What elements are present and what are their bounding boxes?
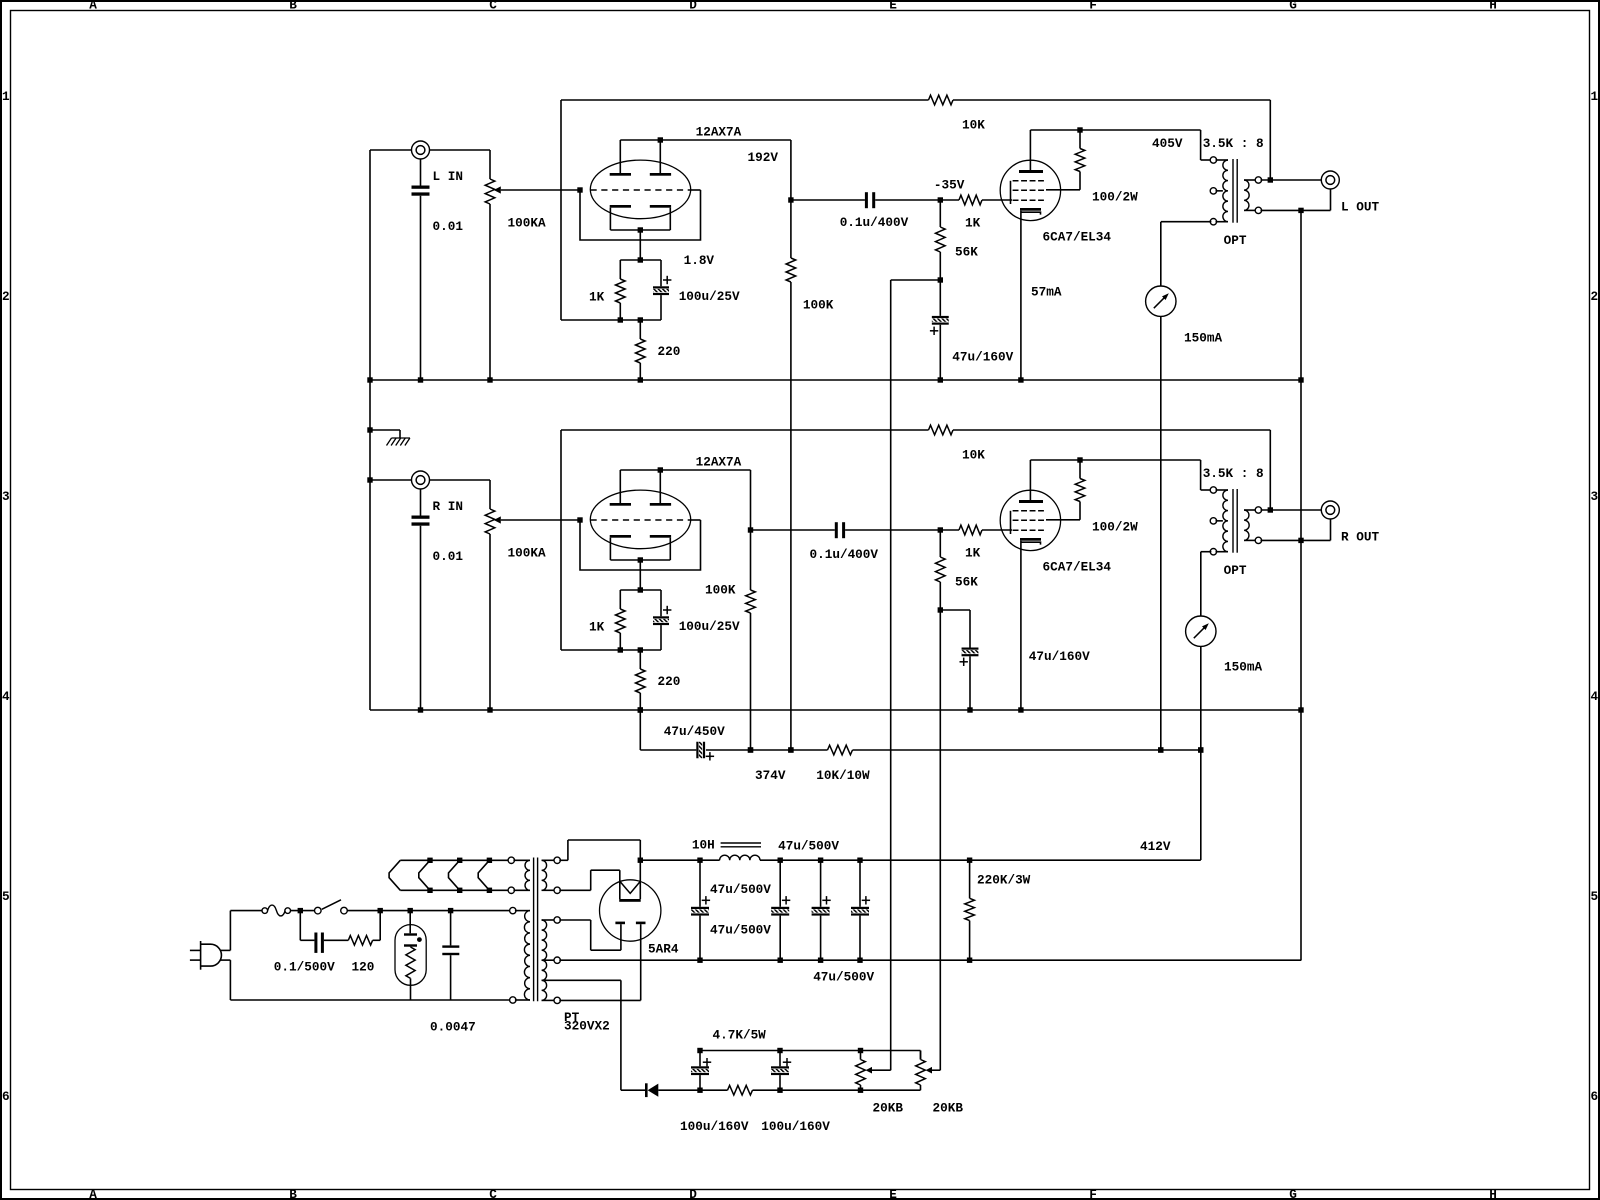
svg-text:3.5K : 8: 3.5K : 8 <box>1203 466 1264 481</box>
svg-text:OPT: OPT <box>1224 563 1247 578</box>
svg-text:12AX7A: 12AX7A <box>696 455 742 470</box>
svg-text:220: 220 <box>658 344 681 359</box>
svg-text:100K: 100K <box>705 582 736 597</box>
svg-text:1: 1 <box>2 89 10 104</box>
svg-text:-35V: -35V <box>934 177 965 192</box>
svg-text:100KA: 100KA <box>508 545 546 560</box>
svg-text:4: 4 <box>2 689 10 704</box>
svg-text:A: A <box>89 0 97 13</box>
svg-text:5: 5 <box>1591 889 1599 904</box>
svg-text:L OUT: L OUT <box>1341 199 1379 214</box>
svg-text:47u/160V: 47u/160V <box>952 349 1013 364</box>
svg-text:100u/25V: 100u/25V <box>679 619 740 634</box>
svg-text:B: B <box>289 1187 297 1200</box>
svg-text:57mA: 57mA <box>1031 284 1062 299</box>
svg-text:5AR4: 5AR4 <box>648 942 679 957</box>
svg-text:220: 220 <box>658 674 681 689</box>
svg-text:H: H <box>1489 0 1497 13</box>
svg-text:47u/500V: 47u/500V <box>813 969 874 984</box>
svg-text:R IN: R IN <box>433 499 463 514</box>
svg-text:1K: 1K <box>965 545 981 560</box>
svg-text:12AX7A: 12AX7A <box>696 125 742 140</box>
svg-text:10K/10W: 10K/10W <box>816 768 870 783</box>
svg-text:G: G <box>1289 0 1297 13</box>
svg-text:E: E <box>889 1187 897 1200</box>
svg-text:C: C <box>489 0 497 13</box>
svg-text:1K: 1K <box>965 215 981 230</box>
svg-text:A: A <box>89 1187 97 1200</box>
svg-text:0.1u/400V: 0.1u/400V <box>840 215 909 230</box>
svg-text:D: D <box>689 0 697 13</box>
svg-text:F: F <box>1089 0 1097 13</box>
svg-text:L IN: L IN <box>433 169 463 184</box>
svg-text:6CA7/EL34: 6CA7/EL34 <box>1043 229 1112 244</box>
svg-text:56K: 56K <box>955 574 978 589</box>
svg-text:47u/160V: 47u/160V <box>1029 649 1090 664</box>
svg-text:6: 6 <box>2 1089 10 1104</box>
svg-text:47u/500V: 47u/500V <box>710 923 771 938</box>
svg-text:405V: 405V <box>1152 136 1183 151</box>
svg-text:0.01: 0.01 <box>433 219 464 234</box>
svg-text:10K: 10K <box>962 447 985 462</box>
svg-text:F: F <box>1089 1187 1097 1200</box>
svg-text:C: C <box>489 1187 497 1200</box>
svg-text:100u/160V: 100u/160V <box>680 1119 749 1134</box>
svg-text:3.5K : 8: 3.5K : 8 <box>1203 136 1264 151</box>
svg-text:OPT: OPT <box>1224 233 1247 248</box>
svg-text:2: 2 <box>1591 289 1599 304</box>
svg-text:320VX2: 320VX2 <box>564 1019 610 1034</box>
svg-text:6: 6 <box>1591 1089 1599 1104</box>
svg-text:100/2W: 100/2W <box>1092 519 1138 534</box>
svg-text:4: 4 <box>1591 689 1599 704</box>
svg-text:5: 5 <box>2 889 10 904</box>
svg-text:3: 3 <box>2 489 10 504</box>
svg-text:10H: 10H <box>692 838 715 853</box>
svg-text:47u/500V: 47u/500V <box>778 839 839 854</box>
svg-text:150mA: 150mA <box>1224 659 1262 674</box>
svg-text:47u/450V: 47u/450V <box>664 724 725 739</box>
svg-text:100K: 100K <box>803 298 834 313</box>
svg-text:192V: 192V <box>748 150 779 165</box>
svg-text:374V: 374V <box>755 768 786 783</box>
svg-text:D: D <box>689 1187 697 1200</box>
svg-text:1K: 1K <box>589 289 605 304</box>
svg-text:0.01: 0.01 <box>433 549 464 564</box>
svg-text:E: E <box>889 0 897 13</box>
svg-text:R OUT: R OUT <box>1341 529 1379 544</box>
svg-text:100KA: 100KA <box>508 215 546 230</box>
svg-text:47u/500V: 47u/500V <box>710 882 771 897</box>
svg-text:100u/160V: 100u/160V <box>761 1119 830 1134</box>
svg-text:120: 120 <box>352 960 375 975</box>
svg-text:0.1/500V: 0.1/500V <box>274 960 335 975</box>
svg-text:0.1u/400V: 0.1u/400V <box>810 547 879 562</box>
svg-text:20KB: 20KB <box>873 1100 904 1115</box>
svg-text:220K/3W: 220K/3W <box>977 873 1031 888</box>
svg-text:0.0047: 0.0047 <box>430 1020 476 1035</box>
svg-text:H: H <box>1489 1187 1497 1200</box>
svg-text:B: B <box>289 0 297 13</box>
svg-text:3: 3 <box>1591 489 1599 504</box>
svg-text:1K: 1K <box>589 619 605 634</box>
svg-text:100/2W: 100/2W <box>1092 189 1138 204</box>
svg-text:6CA7/EL34: 6CA7/EL34 <box>1043 559 1112 574</box>
svg-text:2: 2 <box>2 289 10 304</box>
svg-text:4.7K/5W: 4.7K/5W <box>713 1027 767 1042</box>
svg-text:G: G <box>1289 1187 1297 1200</box>
svg-text:20KB: 20KB <box>933 1100 964 1115</box>
svg-text:10K: 10K <box>962 117 985 132</box>
svg-text:100u/25V: 100u/25V <box>679 289 740 304</box>
svg-text:150mA: 150mA <box>1184 330 1222 345</box>
svg-text:56K: 56K <box>955 244 978 259</box>
svg-text:412V: 412V <box>1140 839 1171 854</box>
svg-text:1.8V: 1.8V <box>684 253 715 268</box>
svg-text:1: 1 <box>1591 89 1599 104</box>
